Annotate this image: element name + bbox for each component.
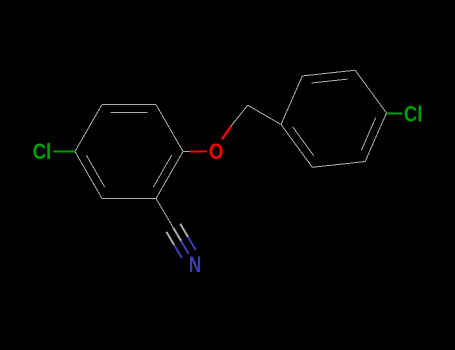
nitrile triple bond center line nitrogen half (blue) [181, 241, 189, 254]
bond C2ring-O carbon half [183, 151, 190, 153]
nitrile triple bond right line carbon half [180, 224, 188, 237]
ring2 bond C2'-C3' top edge [302, 70, 355, 76]
ring1 bond C2-C3 lower-right edge [156, 152, 183, 199]
ring1 double-bond inner line lower-left [86, 155, 104, 187]
ring2 bond C3'-C4' upper-right edge [355, 70, 386, 113]
svg-text:Cl: Cl [33, 139, 52, 164]
svg-text:Cl: Cl [404, 101, 423, 126]
nitrile triple bond right line nitrogen half (blue) [188, 237, 196, 250]
ring1 bond C5-C6 upper-left edge [75, 105, 102, 152]
svg-text:N: N [189, 252, 202, 277]
nitrile triple bond left line carbon half [166, 232, 174, 245]
svg-text:O: O [209, 139, 224, 164]
ring1 bond C1-C2 bottom edge [102, 198, 156, 200]
bond O-CH2 oxygen half (red) [222, 126, 231, 140]
ring1 bond C4-C5 top edge [102, 104, 156, 106]
ring1 double-bond inner line top [111, 112, 148, 114]
ring1 double-bond inner line lower-right [153, 155, 171, 187]
ring2 double-bond inner line lower-left [292, 127, 313, 156]
bond C2-C(nitrile) single [156, 199, 173, 228]
ring1 bond C6-C1 lower-left edge [75, 152, 102, 199]
bond C2ring-O oxygen half (red) [190, 150, 207, 152]
ring2 bond C5'-C6' bottom edge [312, 162, 365, 168]
bond C4'-Cl right chlorine (green) [387, 112, 403, 114]
ring2 double-bond inner line lower-right [361, 118, 376, 151]
nitrile triple bond center line carbon half [173, 228, 181, 241]
bond O-CH2 carbon half [231, 105, 248, 126]
bond CH2-C1' benzylic [248, 105, 281, 124]
ring2 bond C6'-C1' lower-left edge [281, 125, 312, 168]
ring2 bond C1'-C2' upper-left edge [281, 76, 302, 125]
ring1 bond C3-C4 upper-right edge [156, 105, 183, 152]
ring2 bond C4'-C5' lower-right edge [365, 113, 386, 162]
bond C5-Cl left chlorine (green) [54, 150, 76, 152]
nitrile triple bond left line nitrogen half (blue) [174, 245, 182, 258]
ring2 double-bond inner line top [312, 79, 348, 83]
